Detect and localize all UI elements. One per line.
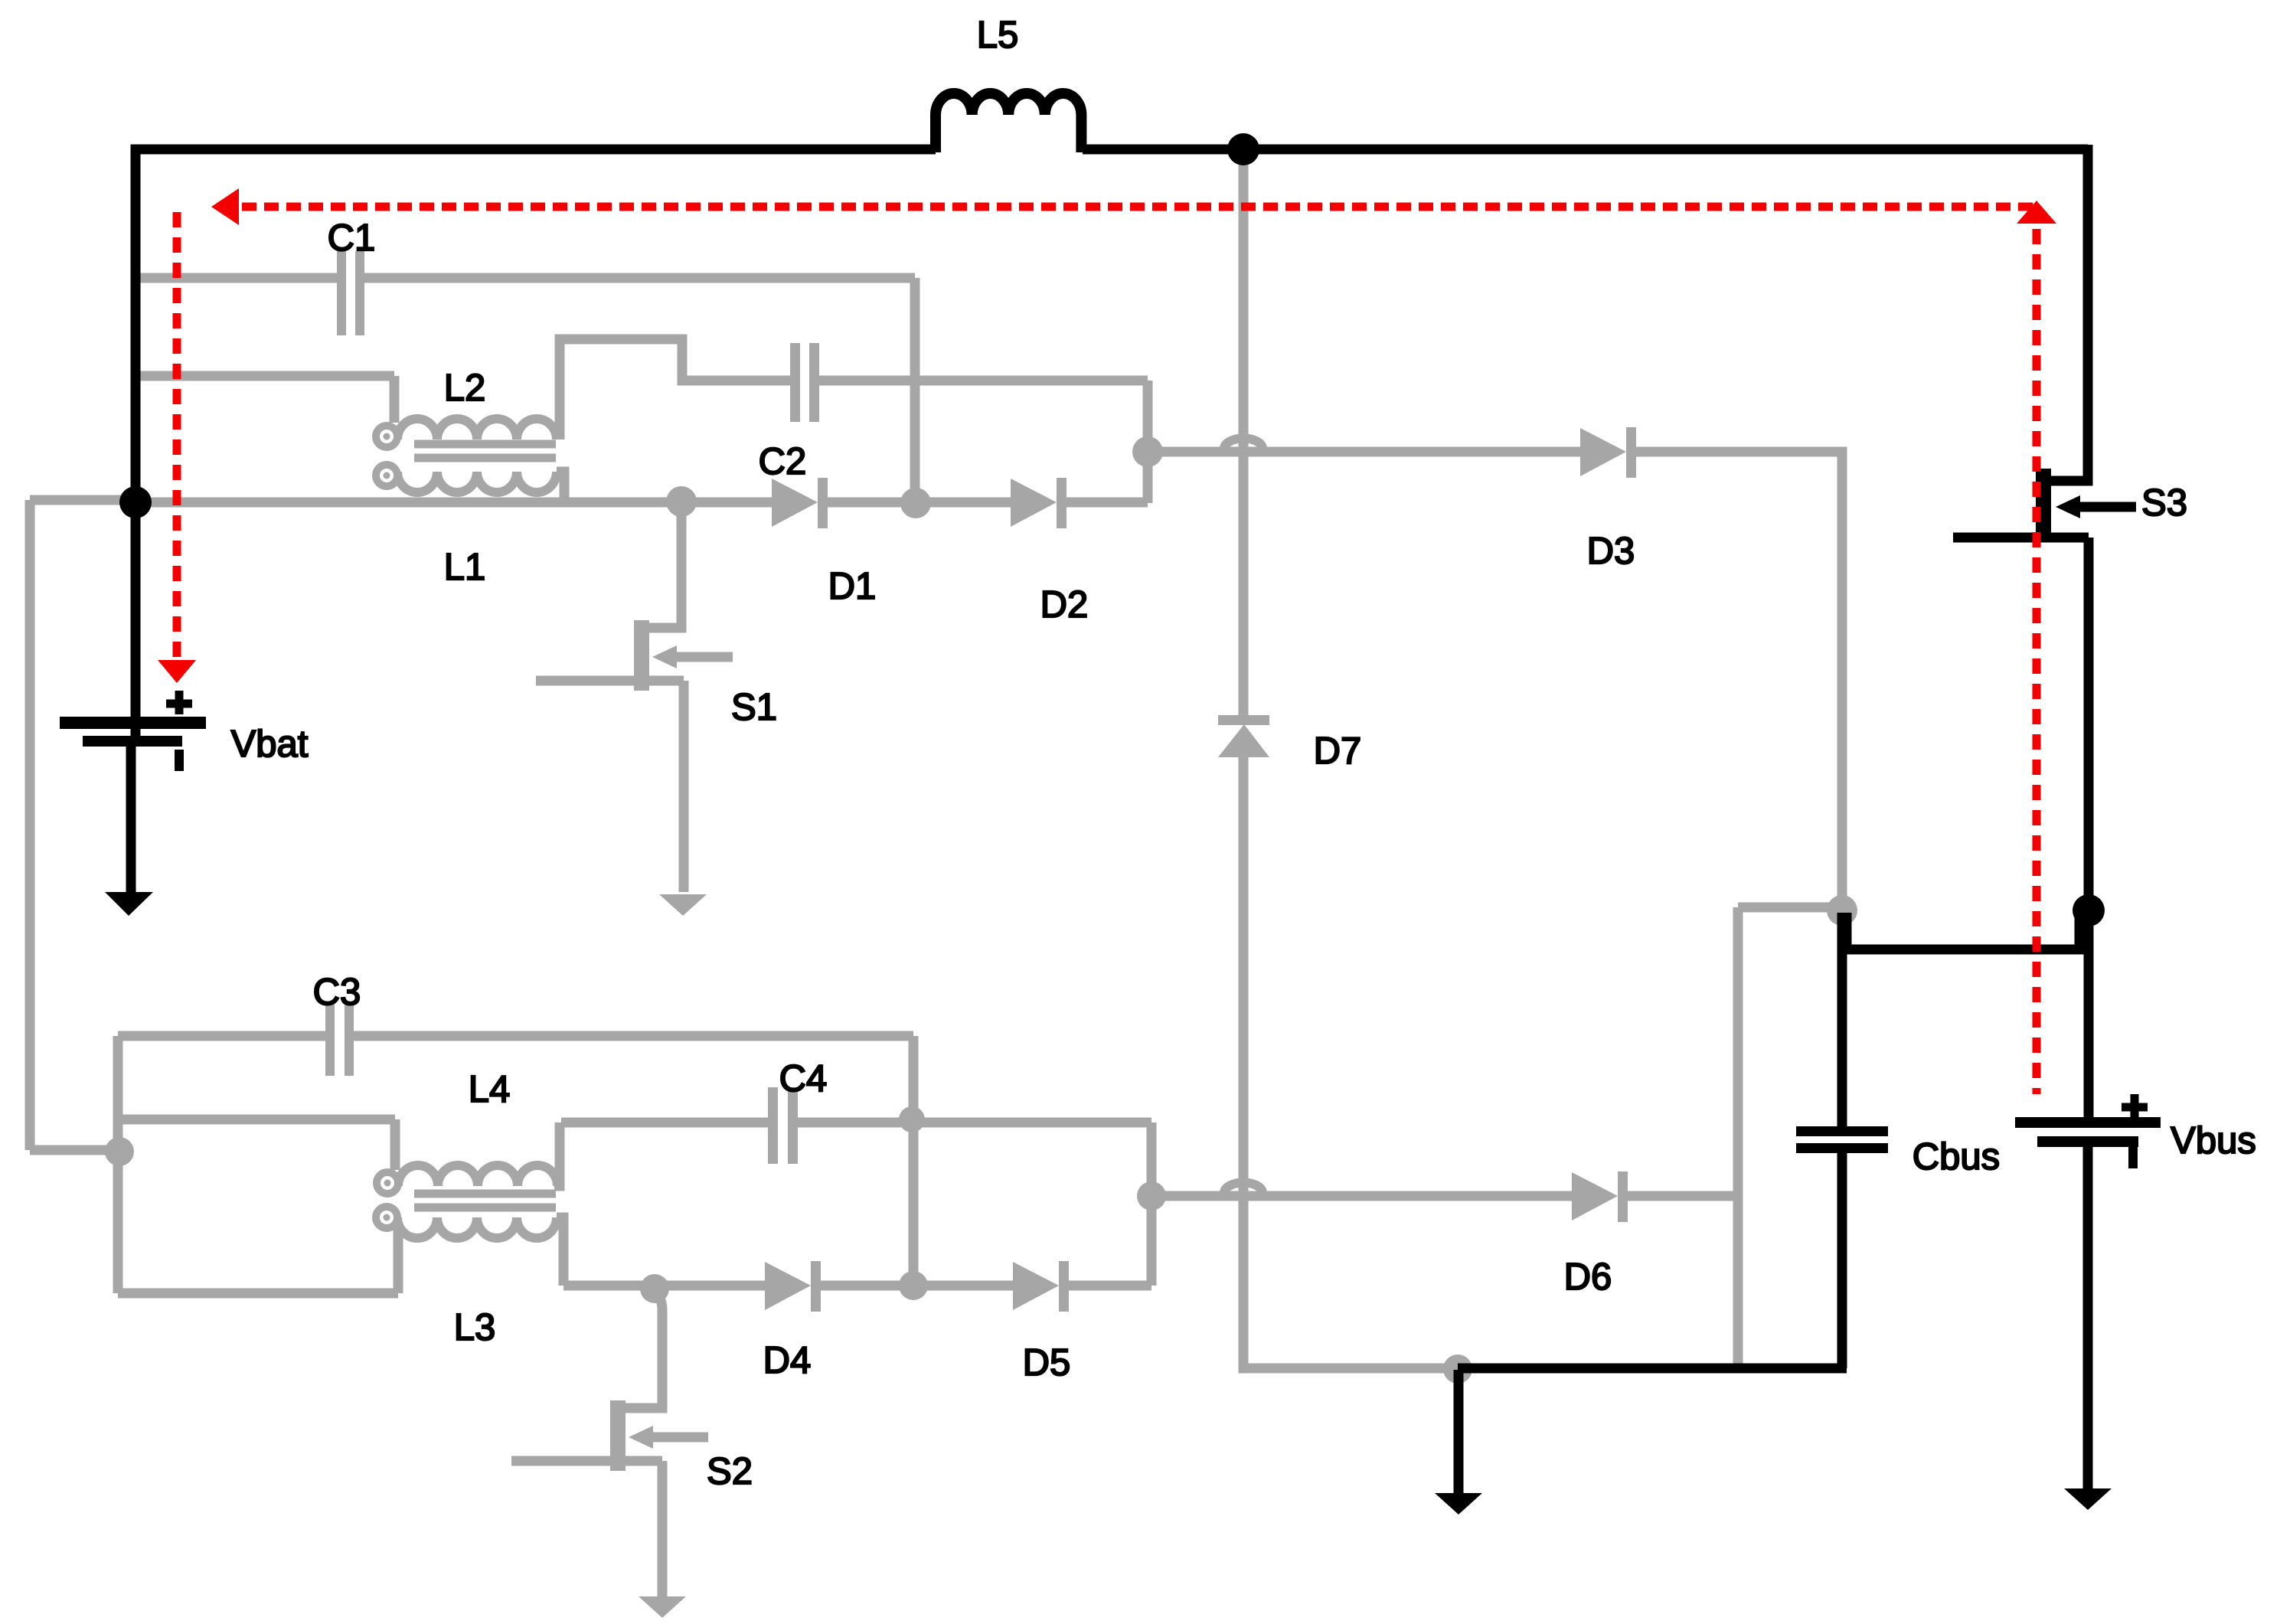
transformer T1 core bars [414, 440, 556, 449]
Vbus plus sign [2122, 1094, 2148, 1120]
wire top rail left [131, 145, 936, 155]
capacitor C2 [790, 343, 800, 422]
svg-text:C4: C4 [779, 1058, 828, 1100]
wire L3 right lead [557, 1217, 563, 1286]
transformer T2 core bars [414, 1190, 556, 1198]
wire left branch to lower cell [30, 500, 136, 1150]
diode D6 [1572, 1172, 1618, 1220]
node S1 drain junction [666, 486, 697, 517]
battery Vbus [2015, 1117, 2161, 1168]
diode D7 [1218, 715, 1269, 725]
Vbat plus sign [166, 691, 192, 714]
wire right vertical (S3 drain) [2045, 145, 2088, 481]
transformer T1 terminal circles [376, 426, 398, 1228]
wire C4 net [561, 1118, 1151, 1128]
wire rail2 segment a [563, 1281, 765, 1291]
wire left vertical [131, 145, 141, 740]
svg-text:L3: L3 [454, 1307, 496, 1348]
wire top rail right [1083, 145, 2088, 155]
wire rail2 segment c [1069, 1281, 1151, 1291]
inductor L5 [936, 93, 1081, 152]
node lower-left junction [105, 1137, 134, 1166]
node C2/D2/D3 junction [1132, 436, 1163, 467]
svg-text:Cbus: Cbus [1913, 1136, 2000, 1178]
wire lower vertical x1193 [909, 1036, 919, 1286]
wire rail2 segment b [821, 1281, 1013, 1291]
svg-text:D6: D6 [1564, 1256, 1612, 1298]
capacitor C1 [325, 251, 819, 1164]
svg-text:D2: D2 [1040, 584, 1089, 626]
capacitor C4 [768, 1087, 778, 1164]
svg-text:D3: D3 [1587, 531, 1635, 572]
node S2 drain junction [640, 1274, 669, 1303]
svg-text:D1: D1 [828, 566, 877, 607]
diode D1 [765, 427, 1636, 1312]
wire L4 right lead [554, 1122, 560, 1186]
wire node C1-C2-D1D2 vertical [910, 278, 920, 503]
wire L4 left feed [118, 1119, 395, 1170]
wire D3 net with hop [1148, 447, 1580, 457]
wire D6 to vertical [1628, 1191, 1738, 1201]
diode D3 [1580, 428, 1626, 476]
svg-text:D7: D7 [1314, 730, 1362, 772]
wire gray bus top of Cbus [1738, 903, 1842, 913]
wire D3 to right corner [1636, 452, 1842, 907]
svg-text:S3: S3 [2141, 482, 2187, 524]
wire rail1 segment a [136, 498, 772, 508]
diode D5 [1013, 1262, 1059, 1310]
svg-text:L4: L4 [469, 1069, 511, 1110]
arrow red up [2017, 201, 2056, 224]
svg-text:S1: S1 [731, 687, 777, 728]
wire L1 right lead [557, 472, 564, 502]
wire C2 output [819, 376, 1148, 386]
ground (S2 source) [639, 1596, 686, 1618]
wire C2 right vertical [1143, 381, 1153, 503]
svg-text:D4: D4 [763, 1340, 812, 1381]
diode D2 [1011, 479, 1057, 527]
wire rail1 segment c [1067, 498, 1148, 508]
svg-text:Vbat: Vbat [231, 724, 309, 765]
node C4 junction [899, 1106, 925, 1132]
wire Cbus top lead [1837, 913, 1847, 1126]
node S3/Vbus junction [2073, 894, 2105, 926]
arrow red down [158, 660, 196, 683]
wire Cbus bottom lead [1837, 1153, 1847, 1368]
wire D6 net with hop [1151, 1191, 1572, 1201]
node D7/ground junction [1443, 1354, 1472, 1384]
coupled inductor L1 winding [397, 472, 557, 492]
transistor S2 [511, 1291, 708, 1596]
wire to bottom ground [1454, 1370, 1464, 1493]
battery Vbat [60, 717, 206, 771]
gray junction dots [105, 436, 1857, 1384]
wire red left vertical [173, 212, 181, 657]
transistor S3 source bar [1953, 533, 2089, 543]
wire U-link Cbus to Vbus node [1847, 913, 2079, 949]
wire C4-D5 vertical [1147, 1122, 1157, 1286]
node D4-D5 junction [899, 1271, 928, 1300]
node Vbat junction [119, 486, 152, 518]
transistor S3 gate lead [2080, 502, 2136, 512]
capacitor Cbus [1796, 1126, 1888, 1153]
svg-text:C2: C2 [759, 441, 807, 482]
node L5/D7 junction [1227, 133, 1259, 165]
wire gray vertical x2270 [1733, 907, 1743, 1368]
wire C1 net right [364, 273, 915, 283]
ground (S1 source) [659, 894, 707, 916]
svg-text:D5: D5 [1023, 1342, 1071, 1384]
wire C3 net right [354, 1031, 913, 1041]
ground (Cbus return) [1435, 1493, 1482, 1515]
wire C3 net left [118, 1031, 325, 1041]
transistor S3 [2036, 469, 2080, 536]
coupled inductor L4 winding [398, 1165, 557, 1186]
node C4/D5/D6 junction [1137, 1181, 1166, 1211]
wire Vbus bottom lead [2083, 1147, 2093, 1488]
ground (Vbat) [105, 892, 153, 916]
wire D7 vertical upper [1239, 149, 1249, 716]
diode D4 [765, 1262, 811, 1310]
wire Vbat to ground [126, 741, 136, 894]
node D3/Cbus junction [1827, 895, 1857, 926]
svg-text:C1: C1 [328, 217, 376, 259]
svg-text:C3: C3 [313, 972, 361, 1013]
svg-text:L1: L1 [444, 547, 486, 588]
wire L2 left feed [139, 376, 394, 423]
wire D7 vertical lower [1243, 756, 1458, 1368]
svg-text:S2: S2 [707, 1451, 753, 1492]
svg-text:L2: L2 [444, 368, 486, 409]
ground (Vbus) [2064, 1488, 2112, 1510]
node D1-D2 junction [900, 488, 931, 518]
wire rail1 segment b [828, 498, 1011, 508]
transistor S1 [536, 502, 733, 892]
wire lower bus x154 [113, 1036, 123, 1293]
arrow red left [211, 188, 239, 225]
coupled inductor L2 winding [397, 419, 564, 1286]
wire L2 upper branch [560, 339, 790, 439]
capacitor C3 [325, 1003, 335, 1076]
wire L3 left feed [118, 1229, 398, 1293]
wire bottom link [1458, 1364, 1847, 1374]
wire S3 source to Vbus [2084, 538, 2094, 1117]
svg-text:Vbus: Vbus [2171, 1120, 2256, 1162]
svg-text:L5: L5 [977, 15, 1019, 56]
transformer T2 terminal circles [377, 1172, 398, 1194]
wire red horizontal [242, 203, 2037, 211]
wire red right vertical [2033, 229, 2041, 1094]
coupled inductor L3 winding [397, 1217, 557, 1238]
wire C1 net left [139, 273, 337, 283]
